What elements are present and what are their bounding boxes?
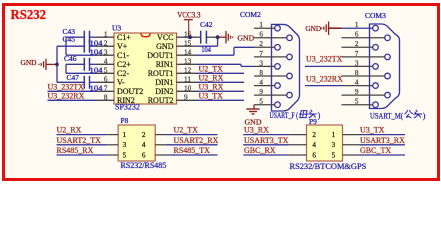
capacitor plates row pin 2 bbox=[83, 40, 85, 53]
svg-text:RS232/RS485: RS232/RS485 bbox=[121, 161, 167, 170]
svg-text:V-: V- bbox=[117, 78, 125, 87]
U3 notch bbox=[141, 33, 150, 36]
COM2 pin stub 2 bbox=[254, 46, 275, 48]
svg-text:2: 2 bbox=[142, 131, 146, 139]
wire row pin 3 bbox=[66, 54, 96, 56]
COM2 pin stub 8 bbox=[254, 75, 287, 77]
wire row pin 6 left segment bbox=[57, 81, 84, 83]
sheet background bbox=[0, 0, 441, 183]
P9 pin stub right bbox=[343, 144, 360, 146]
svg-text:8: 8 bbox=[259, 69, 263, 77]
COM2 pin hole 2 bbox=[275, 45, 281, 51]
wire pin16 to C42 bbox=[197, 36, 201, 38]
wire DOUT1 pin14 to COM2 pin2 bbox=[197, 54, 235, 56]
svg-text:4: 4 bbox=[312, 141, 316, 149]
wire U3_232TX to pin 7 bbox=[48, 90, 97, 92]
wire left GND rail vertical bbox=[56, 46, 58, 82]
COM2 pin stub 9 bbox=[254, 94, 287, 96]
svg-text:3: 3 bbox=[123, 141, 127, 149]
wire row pin 6 right segment bbox=[90, 81, 97, 83]
svg-text:U3_TX: U3_TX bbox=[199, 92, 224, 101]
svg-text:3: 3 bbox=[104, 48, 108, 56]
svg-text:2: 2 bbox=[312, 131, 316, 139]
wire U2_RX to P8 bbox=[57, 134, 107, 136]
svg-text:11: 11 bbox=[184, 75, 191, 83]
svg-text:V+: V+ bbox=[117, 42, 128, 51]
svg-text:104: 104 bbox=[201, 47, 211, 54]
wire C42 to GND junction bbox=[206, 36, 217, 38]
wire P9 to U3_TX bbox=[360, 134, 406, 136]
svg-text:3: 3 bbox=[332, 141, 336, 149]
svg-text:USART_M(: USART_M( bbox=[370, 111, 403, 120]
P8 pin stub right bbox=[155, 144, 166, 146]
svg-text:2: 2 bbox=[355, 40, 359, 48]
COM2 pin stub 5 bbox=[254, 104, 275, 106]
svg-text:RS232/BTCOM&GPS: RS232/BTCOM&GPS bbox=[290, 162, 367, 171]
svg-text:RS485_RX: RS485_RX bbox=[57, 146, 94, 155]
wire USART3_TX to P9 bbox=[243, 144, 288, 146]
svg-text:VCC: VCC bbox=[157, 33, 173, 42]
wire pin15 to GND node bbox=[197, 45, 218, 47]
svg-text:U3_232TX: U3_232TX bbox=[48, 83, 85, 92]
svg-text:VCC3.3: VCC3.3 bbox=[177, 10, 200, 19]
wire U2_RX bbox=[197, 81, 245, 83]
svg-text:6: 6 bbox=[104, 76, 108, 84]
wire row pin 1 left segment bbox=[66, 36, 84, 38]
svg-text:ROUT2: ROUT2 bbox=[148, 96, 174, 105]
svg-text:1: 1 bbox=[332, 131, 336, 139]
COM3 pin hole 6 bbox=[385, 35, 391, 41]
U3 right pin stub pin 10 bbox=[177, 90, 197, 92]
svg-text:U2_RX: U2_RX bbox=[57, 126, 82, 135]
COM3 pin stub 6 bbox=[342, 37, 385, 39]
P9 pin stub left bbox=[289, 134, 307, 136]
svg-text:U3_232RX: U3_232RX bbox=[48, 91, 85, 100]
P9 pin stub left bbox=[289, 154, 307, 156]
svg-text:104: 104 bbox=[90, 67, 103, 75]
U3 left pin stub pin 5 bbox=[96, 72, 114, 74]
capacitor C42 plates bbox=[200, 31, 202, 44]
svg-text:DIN2: DIN2 bbox=[155, 87, 173, 96]
svg-text:USART2_RX: USART2_RX bbox=[174, 136, 219, 145]
svg-text:13: 13 bbox=[184, 57, 192, 65]
COM2 pin hole 7 bbox=[287, 54, 293, 60]
COM3 pin stub 5 bbox=[342, 104, 373, 106]
svg-text:4: 4 bbox=[355, 79, 359, 87]
COM2 pin hole 6 bbox=[287, 35, 293, 41]
U3 right pin stub pin 9 bbox=[177, 99, 197, 101]
svg-text:DOUT2: DOUT2 bbox=[117, 87, 143, 96]
U3 left pin stub pin 1 bbox=[96, 36, 114, 38]
wire row pin 1 right segment bbox=[90, 36, 97, 38]
junction VCC at pin 16 bbox=[188, 35, 192, 39]
U3 right pin stub pin 16 bbox=[177, 36, 197, 38]
svg-text:USART_F (: USART_F ( bbox=[270, 111, 299, 120]
sheet border frame bbox=[4, 5, 439, 180]
U3 left pin stub pin 3 bbox=[96, 54, 114, 56]
svg-text:RS232: RS232 bbox=[11, 8, 47, 23]
svg-text:DIN1: DIN1 bbox=[155, 78, 173, 87]
U3 right pin stub pin 14 bbox=[177, 54, 197, 56]
COM3 pin hole 5 bbox=[373, 102, 379, 108]
capacitor plates row pin 1 bbox=[83, 31, 85, 44]
COM2 pin hole 1 bbox=[275, 25, 281, 31]
svg-text:U3_TX: U3_TX bbox=[360, 126, 385, 135]
COM3 pin stub 8 bbox=[342, 75, 385, 77]
P9 pin stub right bbox=[343, 134, 360, 136]
COM2 pin stub 3 bbox=[254, 65, 275, 67]
svg-text:U3_232RX: U3_232RX bbox=[306, 74, 343, 83]
U3 left pin stub pin 4 bbox=[96, 63, 114, 65]
COM3 pin hole 8 bbox=[385, 73, 391, 79]
svg-text:9: 9 bbox=[259, 88, 263, 96]
svg-text:15: 15 bbox=[184, 39, 192, 47]
COM2 pin hole 4 bbox=[275, 83, 281, 89]
svg-text:GND: GND bbox=[21, 58, 37, 67]
wire row pin 2 right segment bbox=[90, 45, 97, 47]
svg-text:8: 8 bbox=[355, 69, 359, 77]
svg-text:U2_TX: U2_TX bbox=[174, 126, 199, 135]
svg-text:U3_RX: U3_RX bbox=[244, 126, 269, 135]
wire loop C2+ to C2- vertical bbox=[65, 64, 67, 73]
svg-text:5: 5 bbox=[123, 151, 127, 159]
wire U3_TX bbox=[197, 99, 245, 101]
svg-text:104: 104 bbox=[90, 40, 103, 48]
COM2 pin stub 6 bbox=[254, 37, 287, 39]
svg-text:14: 14 bbox=[184, 48, 192, 56]
svg-text:): ) bbox=[318, 111, 321, 120]
svg-text:8: 8 bbox=[104, 94, 108, 102]
COM3 pin stub 7 bbox=[342, 56, 385, 58]
junction C42 GND node bbox=[216, 35, 220, 39]
COM2 pin hole 5 bbox=[275, 102, 281, 108]
wire P8 to RS485_TX bbox=[167, 154, 218, 156]
wire U3_232TX to COM3 pin3 bbox=[305, 65, 342, 67]
P9 pin stub right bbox=[343, 154, 360, 156]
wire GBC_RX to P9 bbox=[243, 154, 288, 156]
svg-text:GND: GND bbox=[156, 42, 174, 51]
svg-text:6: 6 bbox=[312, 151, 316, 159]
P8 pin stub left bbox=[107, 134, 118, 136]
wire row pin 4 left segment bbox=[66, 63, 84, 65]
COM2 pin hole 8 bbox=[287, 73, 293, 79]
svg-text:C47: C47 bbox=[67, 73, 80, 82]
svg-text:U2_RX: U2_RX bbox=[199, 74, 224, 83]
wire row pin 2 left segment bbox=[57, 45, 84, 47]
U3 left pin stub pin 6 bbox=[96, 81, 114, 83]
svg-text:1: 1 bbox=[355, 21, 359, 29]
connector P8 body bbox=[118, 125, 155, 161]
COM3 pin stub 1 bbox=[342, 27, 373, 29]
svg-text:2: 2 bbox=[259, 40, 263, 48]
COM3 pin stub 2 bbox=[342, 46, 373, 48]
U3 right pin stub pin 12 bbox=[177, 72, 197, 74]
svg-text:4: 4 bbox=[142, 141, 146, 149]
wire P8 to U2_TX bbox=[167, 134, 218, 136]
COM3 pin hole 7 bbox=[385, 54, 391, 60]
svg-text:): ) bbox=[423, 111, 426, 120]
svg-text:5: 5 bbox=[259, 98, 263, 106]
U3 right pin stub pin 13 bbox=[177, 63, 197, 65]
svg-text:6: 6 bbox=[355, 31, 359, 39]
wire U2_TX bbox=[197, 72, 245, 74]
svg-text:10: 10 bbox=[184, 84, 192, 92]
svg-text:RS485_TX: RS485_TX bbox=[174, 146, 211, 155]
svg-text:2: 2 bbox=[104, 39, 108, 47]
svg-text:7: 7 bbox=[104, 85, 108, 93]
COM3 pin hole 3 bbox=[373, 64, 379, 70]
svg-text:5: 5 bbox=[104, 67, 108, 75]
connector COM2 body bbox=[272, 24, 300, 111]
U3 left pin stub pin 7 bbox=[96, 90, 114, 92]
P8 pin stub left bbox=[107, 154, 118, 156]
svg-text:5: 5 bbox=[355, 98, 359, 106]
svg-text:RIN2: RIN2 bbox=[117, 96, 135, 105]
svg-text:GND: GND bbox=[305, 24, 321, 33]
op-amp U3 SP3232 transceiver body bbox=[114, 33, 177, 104]
svg-text:GBC_RX: GBC_RX bbox=[244, 146, 276, 155]
wire P9 to GBC_TX bbox=[360, 154, 406, 156]
capacitor plates row pin 4 bbox=[83, 58, 85, 71]
ground symbol earth under COM2 bbox=[253, 105, 255, 109]
svg-text:7: 7 bbox=[355, 50, 359, 58]
wire U3_RX bbox=[197, 90, 245, 92]
svg-text:U3_RX: U3_RX bbox=[199, 83, 224, 92]
svg-text:C42: C42 bbox=[200, 20, 213, 29]
svg-text:P8: P8 bbox=[121, 116, 129, 125]
junction GND tap on rail bbox=[55, 63, 59, 67]
svg-text:USART3_RX: USART3_RX bbox=[360, 136, 405, 145]
wire U3_232RX to pin 8 bbox=[48, 99, 97, 101]
svg-text:USART2_TX: USART2_TX bbox=[57, 136, 102, 145]
wire U3_RX to P9 bbox=[243, 134, 288, 136]
wire row pin 4 right segment bbox=[90, 63, 97, 65]
COM3 pin stub 4 bbox=[342, 85, 373, 87]
svg-text:C1-: C1- bbox=[117, 51, 129, 60]
svg-text:1: 1 bbox=[259, 21, 263, 29]
connector COM3 body bbox=[370, 24, 400, 109]
COM2 pin stub 7 bbox=[254, 56, 287, 58]
connector P9 body bbox=[307, 125, 343, 161]
svg-text:104: 104 bbox=[90, 49, 103, 57]
COM2 pin hole 3 bbox=[275, 64, 281, 70]
wire RIN1 pin13 to COM2 pin3 bbox=[197, 63, 242, 65]
svg-text:C45: C45 bbox=[63, 34, 76, 43]
svg-text:DOUT1: DOUT1 bbox=[147, 51, 173, 60]
svg-text:9: 9 bbox=[184, 93, 188, 101]
svg-text:GND: GND bbox=[237, 34, 254, 43]
wire U3_232RX to COM3 pin4 bbox=[305, 85, 342, 87]
svg-text:U3_232TX: U3_232TX bbox=[306, 55, 343, 64]
COM3 pin hole 2 bbox=[373, 45, 379, 51]
svg-text:4: 4 bbox=[259, 79, 263, 87]
P8 pin stub left bbox=[107, 144, 118, 146]
COM3 pin hole 4 bbox=[373, 83, 379, 89]
svg-text:3: 3 bbox=[355, 59, 359, 67]
svg-text:C2+: C2+ bbox=[117, 60, 131, 69]
capacitor plates row pin 6 bbox=[83, 76, 85, 89]
wire USART2_TX to P8 bbox=[57, 144, 107, 146]
svg-text:C1+: C1+ bbox=[117, 33, 131, 42]
svg-text:GBC_TX: GBC_TX bbox=[360, 146, 391, 155]
svg-text:U2_TX: U2_TX bbox=[199, 65, 224, 74]
COM3 pin stub 9 bbox=[342, 94, 385, 96]
U3 left pin stub pin 2 bbox=[96, 45, 114, 47]
svg-text:COM2: COM2 bbox=[240, 10, 261, 19]
U3 right pin stub pin 15 bbox=[177, 45, 197, 47]
svg-text:6: 6 bbox=[142, 151, 146, 159]
P9 pin stub left bbox=[289, 144, 307, 146]
svg-text:ROUT1: ROUT1 bbox=[148, 69, 174, 78]
svg-text:1: 1 bbox=[123, 131, 127, 139]
svg-text:1: 1 bbox=[104, 30, 108, 38]
COM2 pin stub 1 bbox=[254, 27, 275, 29]
svg-text:5: 5 bbox=[332, 151, 336, 159]
wire P8 to USART2_RX bbox=[167, 144, 218, 146]
svg-text:6: 6 bbox=[259, 31, 263, 39]
svg-text:COM3: COM3 bbox=[365, 11, 386, 20]
svg-text:RIN1: RIN1 bbox=[156, 60, 174, 69]
U3 right pin stub pin 11 bbox=[177, 81, 197, 83]
wire loop C1+ to C1- vertical bbox=[65, 37, 67, 55]
COM3 pin hole 1 bbox=[373, 25, 379, 31]
P8 pin stub right bbox=[155, 134, 166, 136]
svg-text:4: 4 bbox=[104, 58, 108, 66]
COM2 pin hole 9 bbox=[287, 92, 293, 98]
svg-text:12: 12 bbox=[184, 66, 192, 74]
U3 left pin stub pin 8 bbox=[96, 99, 114, 101]
ground symbol GND near C42 bbox=[218, 36, 226, 38]
COM3 pin stub 3 bbox=[342, 65, 373, 67]
svg-text:9: 9 bbox=[355, 88, 359, 96]
svg-text:U3: U3 bbox=[112, 24, 121, 33]
COM2 pin stub 4 bbox=[254, 85, 275, 87]
svg-text:7: 7 bbox=[259, 50, 263, 58]
P8 pin stub right bbox=[155, 154, 166, 156]
wire RS485_RX to P8 bbox=[57, 154, 107, 156]
svg-text:C2-: C2- bbox=[117, 69, 129, 78]
wire row pin 5 bbox=[66, 72, 96, 74]
svg-text:USART3_TX: USART3_TX bbox=[244, 136, 289, 145]
wire P9 to USART3_RX bbox=[360, 144, 406, 146]
COM3 pin hole 9 bbox=[385, 92, 391, 98]
svg-text:3: 3 bbox=[259, 59, 263, 67]
